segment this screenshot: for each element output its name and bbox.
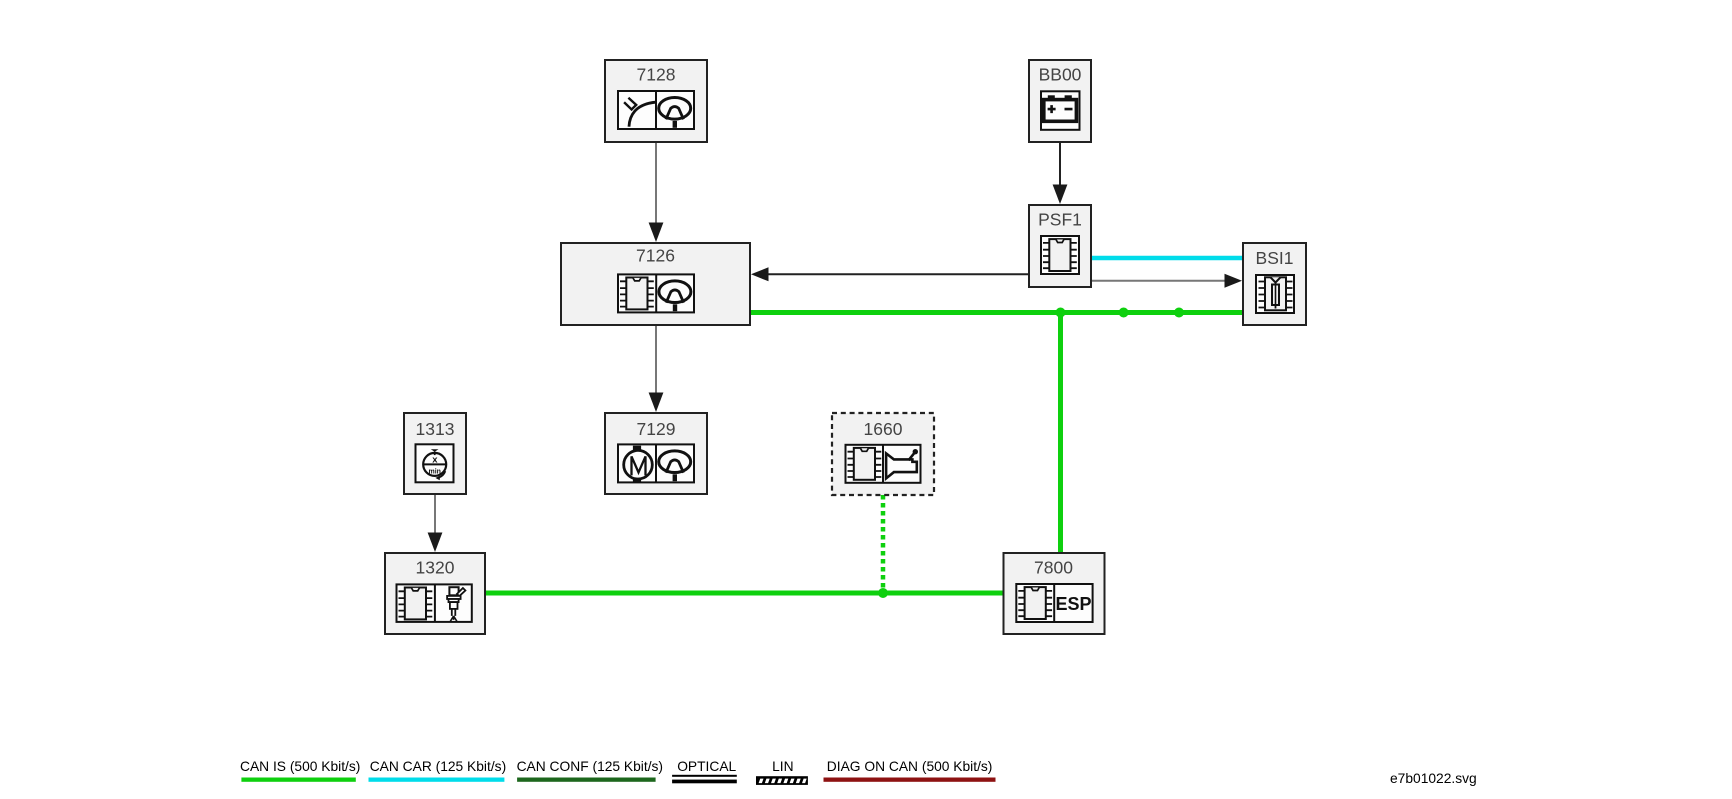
svg-text:1320: 1320 (416, 558, 455, 578)
svg-text:7128: 7128 (637, 65, 676, 85)
svg-text:CAN IS (500 Kbit/s): CAN IS (500 Kbit/s) (240, 759, 360, 774)
svg-text:7800: 7800 (1034, 558, 1073, 578)
svg-text:1313: 1313 (416, 419, 455, 439)
svg-text:1660: 1660 (864, 419, 903, 439)
svg-text:e7b01022.svg: e7b01022.svg (1390, 771, 1477, 786)
svg-text:PSF1: PSF1 (1038, 210, 1082, 230)
svg-text:BB00: BB00 (1039, 65, 1082, 85)
svg-text:7129: 7129 (637, 419, 676, 439)
svg-text:DIAG ON CAN (500 Kbit/s): DIAG ON CAN (500 Kbit/s) (827, 759, 993, 774)
svg-text:7126: 7126 (636, 246, 675, 266)
svg-text:BSI1: BSI1 (1256, 248, 1294, 268)
svg-text:OPTICAL: OPTICAL (677, 759, 736, 774)
svg-text:LIN: LIN (772, 759, 793, 774)
svg-text:CAN CAR (125 Kbit/s): CAN CAR (125 Kbit/s) (370, 759, 506, 774)
svg-text:ESP: ESP (1055, 594, 1091, 614)
svg-text:CAN CONF (125 Kbit/s): CAN CONF (125 Kbit/s) (517, 759, 663, 774)
